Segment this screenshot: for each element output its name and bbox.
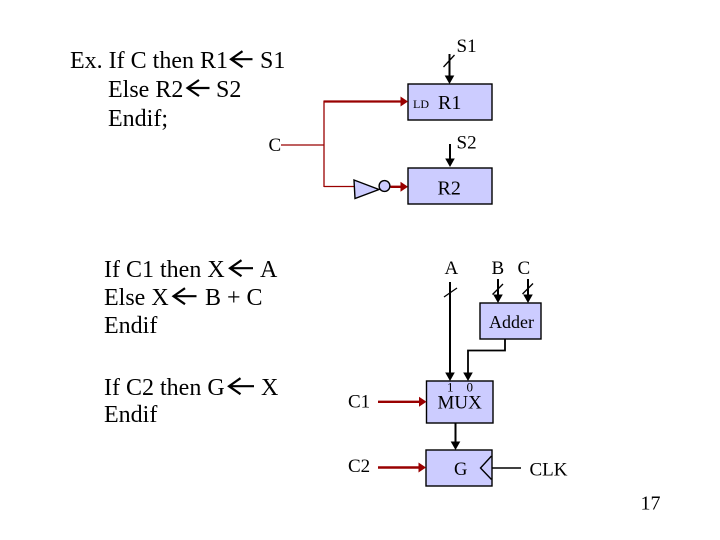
svg-text:C: C xyxy=(269,135,282,156)
svg-text:S2: S2 xyxy=(216,77,241,103)
wire C to R1 LD with arrowhead xyxy=(324,97,409,107)
svg-text:Else R2: Else R2 xyxy=(108,77,183,103)
code text block 3 line 1 xyxy=(104,375,278,401)
svg-text:X: X xyxy=(261,375,278,401)
svg-text:If C2 then G: If C2 then G xyxy=(104,375,225,401)
register R2 xyxy=(408,168,492,204)
wire MUX to G xyxy=(451,423,461,450)
bus slash on S1 wire xyxy=(444,55,455,67)
svg-text:S1: S1 xyxy=(457,36,477,57)
clock wedge on G xyxy=(481,456,492,480)
svg-text:S2: S2 xyxy=(457,133,477,154)
svg-text:Endif;: Endif; xyxy=(108,106,168,132)
wire C1 to MUX with arrowhead xyxy=(378,397,427,407)
svg-text:A: A xyxy=(445,258,459,279)
wire C2 to G with arrowhead xyxy=(378,463,426,473)
wire CLK to G xyxy=(492,467,521,469)
wire adder output to MUX input 0 xyxy=(463,339,505,381)
svg-text:CLK: CLK xyxy=(530,460,568,481)
inverter NOT gate xyxy=(354,180,390,199)
wire C horizontal xyxy=(281,144,324,146)
wire S1 bus arrow xyxy=(445,54,455,84)
svg-text:Endif: Endif xyxy=(104,313,157,339)
svg-text:A: A xyxy=(260,257,278,283)
code text block 1 line 1 xyxy=(70,48,285,74)
register R1 xyxy=(408,84,492,120)
svg-text:S1: S1 xyxy=(260,48,285,74)
svg-text:R2: R2 xyxy=(438,178,461,200)
svg-text:R1: R1 xyxy=(438,92,461,114)
wire inverter to R2 with arrowhead xyxy=(391,182,409,192)
wire A bus arrow xyxy=(445,282,455,381)
svg-text:Adder: Adder xyxy=(489,312,534,332)
svg-text:B + C: B + C xyxy=(205,285,263,311)
svg-text:B: B xyxy=(492,258,505,279)
svg-text:G: G xyxy=(454,460,467,480)
svg-text:17: 17 xyxy=(641,493,661,515)
bus slash on C wire xyxy=(523,284,534,295)
bus slash on A wire xyxy=(444,288,457,297)
svg-text:If C1 then X: If C1 then X xyxy=(104,257,225,283)
wire C bus arrow xyxy=(523,279,533,303)
bus slash on B wire xyxy=(493,284,504,295)
wire B bus arrow xyxy=(493,279,503,303)
adder block xyxy=(480,303,541,339)
svg-text:C: C xyxy=(518,258,531,279)
svg-text:Else X: Else X xyxy=(104,285,169,311)
mux block xyxy=(427,381,494,423)
register G xyxy=(426,450,492,486)
wire C vertical trunk xyxy=(323,101,325,187)
svg-text:Ex. If C then R1: Ex. If C then R1 xyxy=(70,48,228,74)
svg-text:C1: C1 xyxy=(348,392,370,413)
code text block 2 line 1 xyxy=(104,257,278,283)
svg-text:LD: LD xyxy=(413,97,429,111)
svg-text:C2: C2 xyxy=(348,456,370,477)
svg-text:MUX: MUX xyxy=(438,393,483,414)
svg-text:Endif: Endif xyxy=(104,402,157,428)
code text block 1 line 2 xyxy=(108,77,241,103)
code text block 2 line 2 xyxy=(104,285,263,311)
wire C to inverter xyxy=(324,186,354,188)
wire S2 arrow xyxy=(445,144,455,167)
